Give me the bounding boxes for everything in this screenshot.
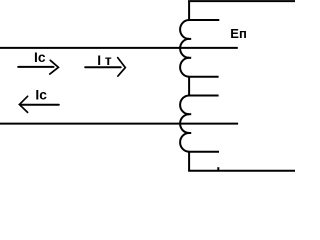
- node tick on bottom rail: [217, 167, 219, 170]
- wire bottom feeder line: [0, 123, 238, 125]
- node cusp tick 2: [185, 57, 191, 59]
- svg-text:Ic: Ic: [34, 50, 46, 65]
- arrow Ic right (top): [18, 60, 58, 74]
- node tap 2: [188, 76, 219, 78]
- wire middle straight segment: [188, 77, 190, 96]
- node tap 4: [188, 151, 219, 153]
- wire Ep top rail: [188, 0, 295, 2]
- inductor L1 lower section loops: [180, 96, 189, 152]
- wire bottom rail: [188, 170, 295, 172]
- node tap 1: [188, 19, 219, 21]
- inductor L1 upper section loops: [180, 20, 189, 77]
- node cusp tick 4: [185, 132, 191, 134]
- arrow Ic left (bottom): [19, 96, 58, 112]
- svg-text:Ic: Ic: [35, 87, 47, 102]
- svg-text:I т: I т: [97, 53, 112, 68]
- wire top feeder line: [0, 47, 238, 49]
- wire top lead: [188, 1, 190, 21]
- wire bottom lead: [188, 152, 190, 171]
- node cusp tick 3: [185, 113, 191, 115]
- svg-text:Еп: Еп: [230, 26, 247, 41]
- node tap 3: [188, 95, 219, 97]
- node cusp tick 1: [185, 38, 191, 40]
- arrow It right: [85, 58, 125, 77]
